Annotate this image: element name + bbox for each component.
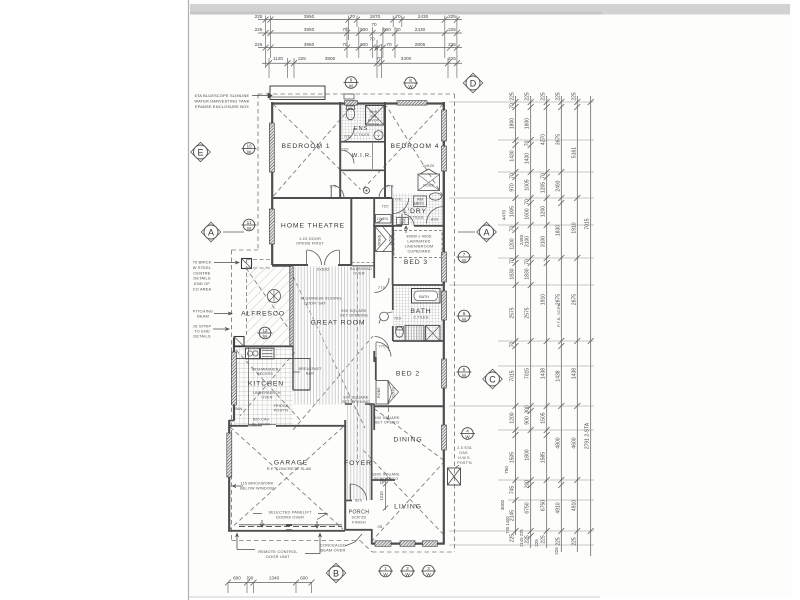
svg-text:RECESS: RECESS [257,372,273,376]
window bedroom4 right 1 [442,110,447,141]
wall greatroom/dining x374 lower [373,404,375,430]
ens shower box [366,106,385,126]
svg-text:900: 900 [525,416,531,425]
svg-text:2791 2-STA: 2791 2-STA [585,422,591,449]
svg-text:900: 900 [360,27,368,32]
bed2 bottom wall [375,405,444,407]
door linen 720 [375,219,383,224]
svg-text:OVEN: OVEN [262,396,273,400]
svg-text:115 BRICKWORK: 115 BRICKWORK [240,482,273,486]
svg-text:3950: 3950 [304,42,315,47]
bed3 top wall [373,225,402,227]
svg-text:KITCHEN: KITCHEN [248,381,284,388]
svg-text:12: 12 [262,328,268,333]
svg-text:3675: 3675 [555,134,561,145]
bath left wall [392,285,394,310]
window dining right [442,425,447,450]
kitchen bench left column [248,346,250,425]
svg-text:1005: 1005 [510,206,516,217]
window circles [344,77,359,89]
porch top wall [345,500,352,502]
wall bedroom1 / home theatre [272,197,392,199]
bath wc [396,327,404,338]
svg-text:PAN: PAN [235,407,243,411]
svg-text:225: 225 [448,14,456,19]
svg-text:3: 3 [427,566,430,571]
svg-text:CENTRE: CENTRE [193,270,210,275]
bath tub [412,289,441,304]
dn br box [397,218,409,225]
svg-text:70: 70 [510,226,516,232]
svg-text:1438: 1438 [571,368,577,379]
window bath right [442,291,447,320]
window kitchen left [232,352,237,405]
svg-text:FRIDGE: FRIDGE [274,404,289,408]
living bottom wall [372,542,445,544]
svg-text:1005: 1005 [525,179,531,190]
svg-text:DOORS OVER: DOORS OVER [276,515,304,520]
svg-text:BATH: BATH [419,295,429,299]
svg-text:C.TILES: C.TILES [414,316,429,320]
svg-text:FOYER: FOYER [344,460,372,467]
svg-text:3100: 3100 [525,236,531,247]
svg-text:5: 5 [463,367,466,372]
wall bedroom1 right / ens-wir left [339,102,341,198]
outer wall top [271,102,444,104]
svg-text:225: 225 [525,92,531,101]
svg-text:DISHWASHER: DISHWASHER [252,368,278,372]
svg-text:2.5 STA: 2.5 STA [457,446,472,450]
right dimension block [449,92,594,556]
svg-text:225: 225 [255,27,263,32]
svg-text:70: 70 [395,27,401,32]
svg-text:770: 770 [394,197,402,202]
outer wall left (bedroom1/home theatre) [271,102,273,265]
laundry tiles [393,193,443,225]
svg-text:1870: 1870 [370,14,381,19]
svg-text:10: 10 [246,144,252,149]
svg-text:W: W [405,572,410,577]
kitchen / garage wall [229,425,248,427]
svg-text:7015: 7015 [525,368,531,379]
svg-text:3950: 3950 [304,27,315,32]
svg-text:225: 225 [255,42,263,47]
svg-text:70: 70 [525,259,531,265]
svg-text:6TA BLUESCOPE SLIMLINE: 6TA BLUESCOPE SLIMLINE [195,93,250,98]
svg-text:70: 70 [541,173,547,179]
svg-text:W: W [263,334,268,339]
svg-text:6750: 6750 [541,500,547,511]
svg-text:LINEN/BROOM: LINEN/BROOM [405,245,434,249]
svg-text:225: 225 [541,535,547,544]
ens + wc tiles [341,104,385,141]
svg-text:900 SQUARE: 900 SQUARE [341,309,367,313]
bottom left dimension [228,582,312,584]
marker C right [483,369,503,389]
window garage left [227,433,232,477]
svg-text:W: W [408,84,413,89]
svg-text:7015: 7015 [585,218,591,229]
door bedroom4 [379,185,390,198]
svg-text:2: 2 [406,566,409,571]
svg-text:1120: 1120 [273,56,283,61]
svg-text:C: C [489,374,496,384]
svg-text:GB: GB [377,525,382,529]
svg-text:1800: 1800 [525,449,531,460]
svg-text:BEAM: BEAM [197,314,209,319]
svg-text:820 CAV.: 820 CAV. [253,418,270,422]
svg-text:C.TILES: C.TILES [355,133,370,137]
svg-text:770: 770 [329,184,337,189]
door bed3 [404,214,414,226]
svg-text:ENS: ENS [354,126,368,132]
svg-text:70: 70 [350,14,356,19]
svg-text:W: W [383,572,388,577]
svg-text:1585: 1585 [541,452,547,463]
window bedroom4 right 2 [442,146,447,171]
svg-text:70: 70 [369,36,375,41]
foyer vertical dim [385,478,387,510]
great room / foyer strip flooring [293,267,372,405]
svg-text:225: 225 [534,539,539,547]
svg-text:225: 225 [379,477,384,485]
svg-text:225: 225 [448,27,456,32]
svg-text:2145 225: 2145 225 [519,529,524,547]
kitchen sink [246,348,260,359]
svg-text:70: 70 [395,14,401,19]
hall arch arcs [375,278,390,293]
svg-text:3000: 3000 [500,499,505,510]
svg-text:720: 720 [341,147,349,152]
svg-text:D: D [470,78,477,88]
svg-text:1830: 1830 [510,268,516,279]
svg-text:70: 70 [371,22,377,27]
svg-text:900 SQUARE: 900 SQUARE [343,396,369,400]
svg-text:SET OPEN'G: SET OPEN'G [375,421,400,425]
roof hip dashed diagonal dining [368,404,446,462]
svg-text:600: 600 [233,576,241,581]
gas hws box [448,468,461,485]
svg-text:1800: 1800 [525,118,531,129]
svg-text:9: 9 [350,78,353,83]
svg-text:1430: 1430 [525,153,531,164]
bed3 bottom / bath top wall [393,284,444,286]
svg-text:V: V [377,133,380,138]
svg-text:LAMINATED: LAMINATED [407,240,430,244]
svg-text:2805: 2805 [415,42,426,47]
svg-text:P.T.B. SCRN: P.T.B. SCRN [557,303,561,327]
scan left page edge line [188,0,190,600]
svg-text:BEDROOM 4: BEDROOM 4 [391,143,440,150]
svg-text:720: 720 [381,204,389,209]
svg-text:1830: 1830 [555,225,561,236]
leader hws [455,465,459,468]
door porch/foyer 620 [350,484,367,501]
svg-text:BR: BR [400,221,405,225]
svg-text:1205: 1205 [541,182,547,193]
svg-text:200: 200 [525,480,531,489]
bed3 arrow [404,226,407,233]
svg-text:6: 6 [463,311,466,316]
svg-text:225: 225 [571,537,577,546]
svg-text:W: W [465,435,470,440]
svg-text:CO AREA: CO AREA [193,287,212,292]
svg-text:1200: 1200 [510,238,516,249]
svg-text:W: W [462,258,467,263]
svg-text:800W x 400D: 800W x 400D [406,235,431,239]
window ens top [345,101,358,106]
wall bedroom4 left [384,102,386,198]
door bed2 770 [376,342,391,357]
svg-text:A: A [208,227,214,237]
svg-text:B: B [333,568,339,578]
bath pivot door panel [426,326,441,342]
svg-text:BELOW WINDOW: BELOW WINDOW [240,487,274,491]
svg-text:GREAT ROOM: GREAT ROOM [311,320,366,327]
svg-text:11: 11 [247,220,252,225]
svg-text:225: 225 [510,534,516,543]
svg-text:SET OPENING: SET OPENING [342,400,370,404]
svg-text:5161: 5161 [571,147,577,158]
svg-text:2493: 2493 [555,180,561,191]
svg-text:1910: 1910 [541,294,547,305]
svg-text:2x520: 2x520 [389,235,393,246]
svg-text:225: 225 [541,92,547,101]
svg-text:W.I.R.: W.I.R. [352,153,373,159]
window bed2 right [442,359,447,388]
svg-text:1200: 1200 [510,412,516,423]
svg-text:2430: 2430 [415,27,426,32]
svg-text:7015: 7015 [510,370,516,381]
svg-text:4800: 4800 [555,437,561,448]
svg-text:720: 720 [343,134,351,139]
svg-text:W: W [462,373,467,378]
svg-text:DOOR UNIT: DOOR UNIT [266,554,290,559]
svg-text:225: 225 [555,92,561,101]
svg-text:1800 SQUARE: 1800 SQUARE [372,473,400,477]
hall wall great room right x374 with arch opening [373,265,375,278]
svg-text:4910: 4910 [555,502,561,513]
svg-text:ROBE: ROBE [377,387,381,398]
svg-text:H.W.S.: H.W.S. [458,456,471,460]
door bath 720 [379,312,393,324]
svg-text:1910: 1910 [571,222,577,233]
svg-text:70: 70 [510,173,516,179]
kitchen cooktop [261,348,275,359]
wall step kitchen/garage [229,420,235,422]
svg-text:ALFRESCO: ALFRESCO [241,311,285,318]
svg-text:1210: 1210 [379,491,384,501]
great room / foyer opening stubs [345,403,352,405]
svg-text:25: 25 [374,45,379,50]
roof hip dashed diagonals living [363,450,443,534]
svg-text:4: 4 [466,429,469,434]
home theatre bottom wall [272,264,308,266]
svg-text:2575: 2575 [525,307,531,318]
svg-text:DINING: DINING [393,437,422,444]
svg-text:BED 3: BED 3 [404,259,428,266]
laundry right wall / bed3 [443,102,445,285]
svg-text:900: 900 [360,42,368,47]
svg-text:1438: 1438 [541,368,547,379]
svg-text:3400: 3400 [401,56,412,61]
wall ens / wir [340,141,385,143]
foyer left wall / garage right [344,420,346,530]
svg-text:DETAILS: DETAILS [193,334,211,339]
marker A right [477,222,497,242]
svg-text:620: 620 [355,498,363,503]
roof hip dashed diagonals bedrooms [273,104,361,190]
svg-text:DOOR 'SAT: DOOR 'SAT [304,302,327,306]
marker D top right [463,73,483,93]
svg-text:4470: 4470 [502,209,507,220]
window bed3 right [442,252,447,282]
svg-text:225: 225 [510,92,516,101]
window home theatre left [269,209,274,244]
porch/living step wall [371,529,373,545]
svg-text:2x520: 2x520 [317,267,329,272]
window bedroom4 top [397,101,427,106]
svg-text:1: 1 [384,566,387,571]
roof hip dashed diagonals great room [290,270,365,428]
door laundry left [393,198,409,213]
svg-text:GAS: GAS [459,451,468,455]
svg-text:WATER HARVESTING TANK: WATER HARVESTING TANK [194,99,249,104]
roof vent above ens window [344,94,354,99]
svg-text:R.F. CONCRETE SLAB: R.F. CONCRETE SLAB [267,466,312,471]
ens vanity [374,131,383,140]
svg-text:C.TILES: C.TILES [409,216,424,220]
roof hip dashed diagonals kitchen [236,350,302,422]
svg-text:970: 970 [510,183,516,192]
alfresco posts [242,259,252,269]
svg-text:745: 745 [510,486,516,495]
svg-text:SHR: SHR [370,110,378,114]
outer wall kitchen left [233,338,235,420]
ens toilet [346,108,354,120]
svg-text:70: 70 [510,258,516,264]
svg-text:POST'N: POST'N [457,461,472,465]
svg-text:4910: 4910 [571,500,577,511]
outer wall right [443,102,445,545]
door bedroom1 [333,185,344,198]
roof hip dashed diagonals garage [230,427,343,529]
svg-text:BREAKFAST: BREAKFAST [299,367,323,371]
svg-text:4270: 4270 [541,134,547,145]
svg-text:7: 7 [463,252,466,257]
svg-text:70: 70 [510,103,516,109]
svg-text:A: A [483,227,489,237]
svg-text:1600: 1600 [525,208,531,219]
svg-text:W: W [247,150,252,155]
svg-text:2493: 2493 [519,234,524,245]
top-left tank enclosure box [270,86,325,100]
svg-text:1800: 1800 [510,118,516,129]
svg-text:1830: 1830 [525,268,531,279]
bath basin [380,312,389,321]
svg-text:3100: 3100 [541,236,547,247]
door kitchen cavity slider [248,425,262,427]
garage door head (panelift) dashed [239,526,342,528]
foyer right wall [371,404,373,500]
svg-text:W: W [247,226,252,231]
wir robe line [372,143,374,169]
svg-text:8: 8 [409,78,412,83]
svg-text:225: 225 [448,56,456,61]
alfresco top wall [272,265,291,267]
leader arrows garage [260,520,264,527]
scan bottom edge line [189,596,600,598]
svg-text:BEDROOM 1: BEDROOM 1 [282,143,331,150]
svg-text:BATH: BATH [410,308,431,315]
svg-text:70: 70 [525,141,531,147]
svg-text:750: 750 [504,466,509,474]
svg-text:LIVING: LIVING [394,504,422,511]
svg-text:6750: 6750 [525,502,531,513]
svg-text:SET OPENING: SET OPENING [340,314,368,318]
svg-text:900 SQUARE: 900 SQUARE [374,416,400,420]
windows living bottom [375,541,391,547]
svg-text:BULKHEAD: BULKHEAD [350,267,372,271]
home theatre double doors [307,250,322,265]
svg-text:225: 225 [255,14,263,19]
svg-text:1438: 1438 [555,370,561,381]
svg-text:70: 70 [525,199,531,205]
svg-text:BED 2: BED 2 [396,371,420,378]
svg-text:LINEN: LINEN [377,217,389,221]
door laundry right 820 [427,207,444,224]
alfresco beam dashed [247,259,273,261]
svg-text:BAR: BAR [306,372,314,376]
svg-text:1505: 1505 [510,452,516,463]
leader breakfast bar [293,371,300,373]
svg-text:CUPBOARD: CUPBOARD [407,250,430,254]
door ens [341,128,355,142]
leader 115 brickwork [233,485,244,488]
top dimension block [255,14,462,78]
corridor wall left x374 [373,198,375,226]
bed2 left wall [375,357,377,380]
svg-text:DOOR: DOOR [368,123,379,127]
svg-text:70: 70 [510,342,516,348]
svg-text:225: 225 [571,92,577,101]
svg-text:1430: 1430 [510,150,516,161]
svg-text:225: 225 [555,537,561,546]
roof overhang dashed outline [258,93,455,95]
svg-text:SCR'ZD: SCR'ZD [351,516,366,520]
door wir [341,150,355,164]
svg-text:HOME THEATRE: HOME THEATRE [281,223,345,230]
garage bottom wall [228,530,345,532]
marker B bottom [326,563,346,583]
alfresco diagonal paving [246,266,291,345]
bath bottom wall [393,340,444,342]
svg-text:2x520: 2x520 [392,387,396,398]
svg-text:WM: WM [413,202,419,206]
breakfast bar [292,346,294,390]
svg-text:(90: (90 [247,576,254,581]
svg-text:EPANSE ENCLOSURE BOX: EPANSE ENCLOSURE BOX [195,104,249,109]
svg-text:820: 820 [431,217,439,222]
bed3 cupboard dashed [394,231,442,258]
svg-text:1340: 1340 [269,576,280,581]
alfresco bbq circle [268,290,281,303]
bath shower stripes [405,326,424,342]
corridor robe box [376,227,394,252]
svg-text:300: 300 [525,405,531,414]
svg-text:720: 720 [394,316,402,321]
svg-text:E: E [197,147,203,157]
